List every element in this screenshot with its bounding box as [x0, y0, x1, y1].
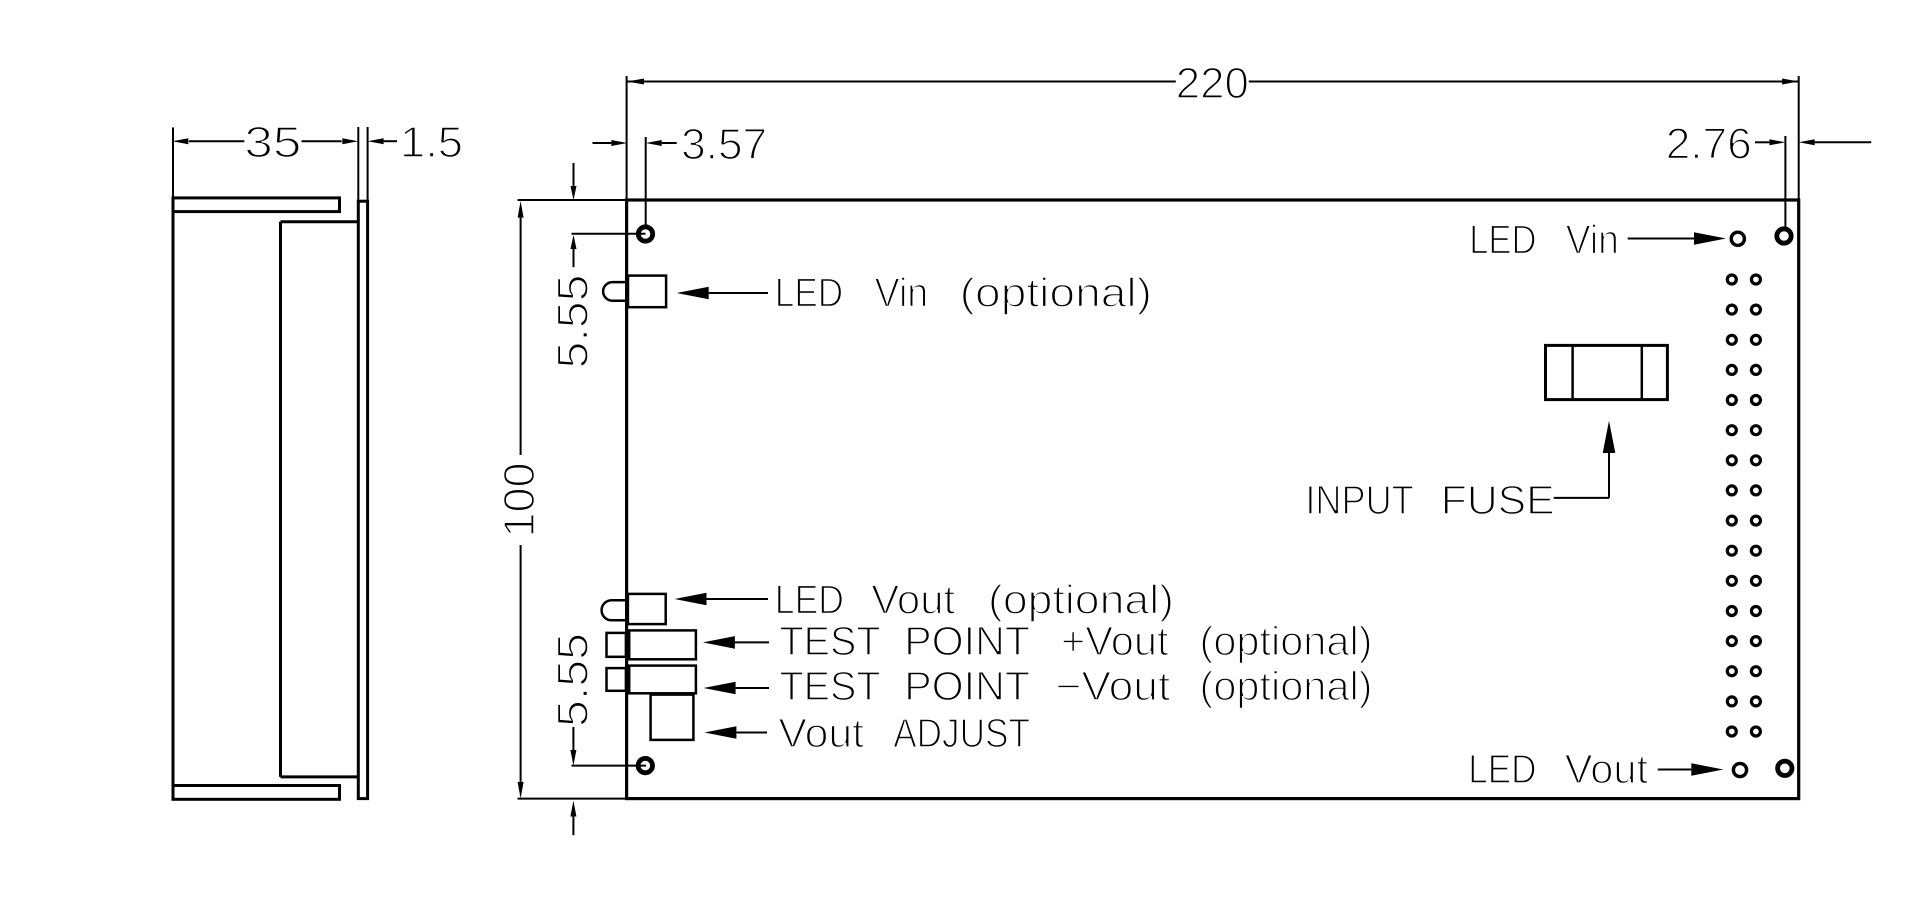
side view PCB plate — [358, 201, 367, 798]
leader arrow LED Vin right — [1628, 232, 1726, 245]
input fuse component — [1546, 345, 1668, 399]
label TEST POINT +Vout optional — [780, 618, 1373, 664]
side view left wall — [172, 212, 175, 786]
dimension 2.76 extension line — [1784, 136, 1786, 227]
label LED Vout optional — [775, 577, 1174, 623]
svg-text:POINT: POINT — [904, 663, 1030, 709]
dimension 3.57 left arrow — [593, 140, 628, 146]
dimension 220 arrow left — [627, 79, 644, 85]
LED Vin indicator circle — [1731, 232, 1744, 245]
svg-text:Vout: Vout — [871, 577, 956, 623]
dimension 3.57 right arrow — [646, 140, 677, 146]
label LED Vout right — [1468, 746, 1648, 792]
dimension 100 arrow bottom — [518, 782, 524, 799]
dimension 5.55 top upper arrow — [571, 163, 577, 200]
svg-text:(optional): (optional) — [960, 270, 1152, 316]
board outline — [627, 200, 1799, 799]
board top edge extension — [518, 199, 627, 201]
svg-text:ADJUST: ADJUST — [893, 710, 1030, 756]
svg-text:LED: LED — [1468, 746, 1536, 792]
dimension 5.55 top lower arrow — [571, 235, 577, 267]
board bottom edge extension — [518, 798, 627, 800]
dimension 220 line — [627, 81, 1798, 83]
svg-text:TEST: TEST — [780, 618, 881, 664]
dimension 1.5 arrow — [368, 138, 397, 144]
corner hole top-right — [1777, 229, 1791, 243]
board right edge extension above — [1798, 76, 1800, 200]
svg-text:(optional): (optional) — [1200, 663, 1373, 709]
svg-text:INPUT: INPUT — [1305, 477, 1413, 523]
label LED Vin right — [1469, 217, 1619, 263]
dimension 35 arrow left — [172, 138, 188, 144]
corner hole bottom-left — [638, 758, 652, 772]
svg-text:Vout: Vout — [778, 710, 864, 756]
svg-text:3.57: 3.57 — [681, 120, 767, 169]
svg-text:5.55: 5.55 — [549, 275, 598, 369]
svg-text:POINT: POINT — [904, 618, 1030, 664]
leader arrow input fuse — [1554, 421, 1616, 498]
test point -Vout component — [607, 666, 696, 694]
label TEST POINT -Vout optional — [780, 663, 1373, 709]
dimension text 2.76 — [1666, 119, 1752, 168]
svg-text:LED: LED — [775, 577, 844, 623]
side view bottom flange — [173, 786, 340, 800]
dimension 35 line — [189, 140, 342, 142]
dimension 220 arrow right — [1782, 79, 1799, 85]
corner hole bottom-right — [1778, 761, 1792, 775]
side view bottom lip — [281, 775, 359, 778]
Vout ADJUST component — [651, 695, 694, 740]
pin header holes column 2 — [1751, 275, 1760, 736]
side view top flange — [173, 198, 340, 212]
leader arrow test point -Vout — [704, 682, 769, 695]
svg-text:(optional): (optional) — [988, 577, 1174, 623]
dimension text 3.57 — [681, 120, 767, 169]
svg-text:100: 100 — [495, 463, 544, 538]
LED Vin component — [603, 276, 666, 308]
pin header holes column 1 — [1727, 275, 1736, 736]
dimension 35 arrow right — [342, 138, 358, 144]
svg-text:Vin: Vin — [875, 270, 929, 316]
dimension text 1.5 — [400, 118, 463, 167]
corner hole top-left — [638, 227, 652, 241]
LED Vout indicator circle — [1733, 763, 1746, 776]
dimension 100 line — [520, 218, 522, 782]
dimension 5.55 bottom hole extension line — [572, 765, 647, 767]
dimension text 5.55 bottom — [549, 633, 598, 727]
dimension text 220 — [1176, 59, 1249, 108]
svg-text:220: 220 — [1176, 59, 1249, 108]
board left edge extension above — [626, 76, 628, 200]
label LED Vin optional — [775, 270, 1152, 316]
test point +Vout component — [607, 630, 696, 659]
svg-text:FUSE: FUSE — [1441, 477, 1555, 523]
svg-text:TEST: TEST — [780, 663, 881, 709]
svg-text:1.5: 1.5 — [400, 118, 463, 167]
svg-text:Vout: Vout — [1565, 746, 1649, 792]
leader arrow test point +Vout — [703, 636, 769, 649]
label Vout ADJUST — [778, 710, 1030, 756]
leader arrow LED Vin left — [677, 287, 768, 300]
dimension 2.76 right arrow — [1799, 139, 1872, 145]
dimension 5.55 top hole extension line — [572, 233, 646, 235]
dimension 100 arrow top — [518, 201, 524, 218]
dimension text 35 — [244, 118, 301, 167]
svg-text:+Vout: +Vout — [1061, 618, 1169, 664]
dimension text 5.55 top — [549, 275, 598, 369]
extension line left wall — [172, 127, 174, 197]
label INPUT FUSE — [1305, 477, 1554, 523]
extension line plate left face — [357, 127, 359, 201]
dimension 3.57 extension line — [645, 137, 647, 225]
dimension 5.55 bottom lower arrow — [570, 801, 576, 836]
dimension text 100 — [495, 463, 544, 538]
svg-text:−Vout: −Vout — [1056, 663, 1171, 709]
side view top lip — [281, 220, 359, 223]
dimension 2.76 left arrow — [1755, 139, 1785, 145]
extension line plate right face — [367, 127, 369, 201]
LED Vout component — [602, 594, 666, 624]
side view inner wall — [279, 222, 282, 777]
svg-text:(optional): (optional) — [1200, 618, 1373, 664]
leader arrow Vout ADJUST — [704, 726, 767, 739]
svg-text:Vin: Vin — [1566, 217, 1619, 263]
svg-text:5.55: 5.55 — [549, 633, 598, 727]
dimension 5.55 bottom line — [570, 727, 576, 766]
svg-text:LED: LED — [775, 270, 843, 316]
svg-text:LED: LED — [1469, 217, 1536, 263]
leader arrow LED Vout right — [1658, 763, 1724, 776]
leader arrow LED Vout left — [675, 593, 769, 606]
svg-text:2.76: 2.76 — [1666, 119, 1752, 168]
svg-text:35: 35 — [244, 118, 301, 167]
